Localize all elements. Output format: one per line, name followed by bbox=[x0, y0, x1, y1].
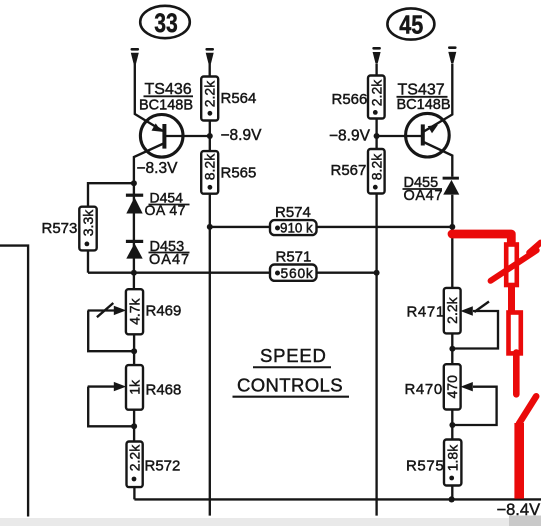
svg-text:OA47: OA47 bbox=[404, 188, 443, 204]
svg-text:4.7k: 4.7k bbox=[127, 297, 143, 324]
svg-text:R574: R574 bbox=[275, 204, 311, 221]
svg-text:R565: R565 bbox=[221, 165, 257, 182]
svg-text:CONTROLS: CONTROLS bbox=[237, 375, 343, 396]
svg-text:560k: 560k bbox=[281, 266, 314, 281]
svg-text:8.2k: 8.2k bbox=[202, 153, 218, 180]
svg-text:R572: R572 bbox=[145, 458, 181, 475]
svg-text:−8.9V: −8.9V bbox=[329, 128, 371, 145]
svg-text:8.2k: 8.2k bbox=[368, 153, 384, 180]
svg-text:R575: R575 bbox=[406, 458, 444, 475]
svg-text:2.2k: 2.2k bbox=[202, 80, 218, 107]
svg-text:R469: R469 bbox=[146, 303, 182, 320]
svg-text:SPEED: SPEED bbox=[260, 345, 327, 366]
svg-text:R571: R571 bbox=[276, 249, 312, 266]
svg-text:910 k: 910 k bbox=[280, 220, 313, 235]
svg-text:R468: R468 bbox=[146, 382, 182, 399]
svg-text:2.2k: 2.2k bbox=[127, 444, 143, 471]
svg-text:R471: R471 bbox=[407, 303, 445, 320]
svg-text:1k: 1k bbox=[127, 379, 143, 395]
svg-text:R564: R564 bbox=[221, 90, 257, 107]
svg-text:−8.9V: −8.9V bbox=[221, 127, 263, 144]
svg-text:R573: R573 bbox=[42, 220, 78, 237]
svg-text:1.8k: 1.8k bbox=[445, 444, 461, 471]
svg-text:R566: R566 bbox=[332, 91, 368, 108]
svg-text:R567: R567 bbox=[331, 162, 367, 179]
svg-text:470: 470 bbox=[444, 375, 460, 399]
svg-text:−8.3V: −8.3V bbox=[137, 160, 179, 177]
svg-text:−8.4V: −8.4V bbox=[497, 501, 541, 519]
svg-text:2.2k: 2.2k bbox=[368, 79, 384, 106]
svg-text:R470: R470 bbox=[405, 381, 443, 398]
svg-text:45: 45 bbox=[399, 10, 423, 40]
svg-text:BC148B: BC148B bbox=[139, 97, 193, 113]
svg-text:2.2k: 2.2k bbox=[444, 296, 460, 323]
svg-text:33: 33 bbox=[154, 8, 178, 38]
svg-text:BC148B: BC148B bbox=[397, 97, 451, 113]
svg-text:OA47: OA47 bbox=[149, 252, 190, 268]
svg-text:3.3k: 3.3k bbox=[80, 209, 96, 236]
